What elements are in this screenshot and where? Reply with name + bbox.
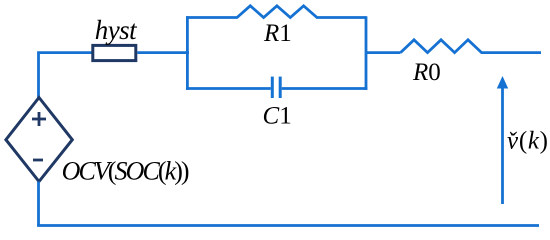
svg-text:v̌(k): v̌(k) [507, 128, 548, 155]
wire RC pair to R0 [366, 51, 401, 54]
wire hyst to RC pair [137, 51, 189, 54]
wire bottom branch left [186, 87, 271, 90]
node right of RC pair (right vertical) [365, 16, 368, 90]
arrow v(k) shaft [501, 86, 504, 204]
resistor hyst (box) [93, 45, 136, 60]
node left of RC pair (left vertical) [186, 16, 189, 90]
plus sign [32, 118, 46, 121]
svg-text:R0: R0 [412, 59, 441, 86]
svg-text:OCV(SOC(k)): OCV(SOC(k)) [62, 157, 190, 186]
resistor R1 (zigzag on top branch) [186, 6, 366, 18]
arrow v(k) head [497, 76, 508, 89]
wire bottom branch right [282, 87, 368, 90]
svg-text:C1: C1 [263, 103, 292, 130]
wire from source top to hyst resistor [39, 53, 94, 98]
resistor R0 (zigzag) [401, 40, 542, 53]
minus sign [33, 159, 43, 162]
bottom wire (return rail) [37, 224, 539, 227]
capacitor C1 (bottom branch plates) [271, 77, 274, 98]
svg-text:hyst: hyst [95, 15, 138, 45]
voltage source OCV (diamond) [6, 98, 72, 182]
svg-text:R1: R1 [263, 20, 292, 47]
wire source bottom to ground rail [37, 182, 40, 227]
